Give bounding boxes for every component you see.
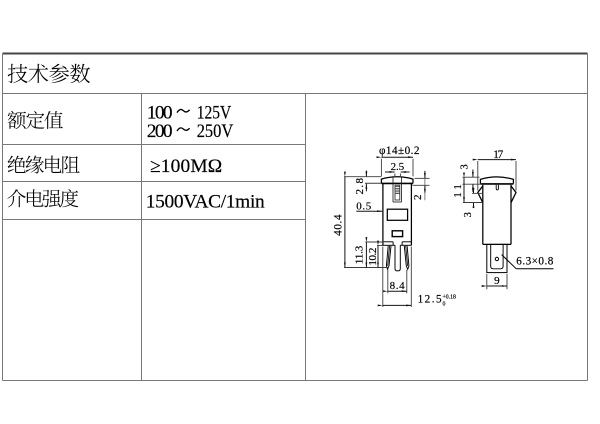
- svg-text:12.5: 12.5: [418, 293, 442, 305]
- svg-text:2.8: 2.8: [354, 178, 366, 195]
- svg-text:200: 200: [147, 121, 173, 142]
- svg-text:2.5: 2.5: [391, 161, 405, 173]
- svg-text:1500VAC/1min: 1500VAC/1min: [146, 191, 265, 212]
- svg-text:250V: 250V: [197, 120, 234, 142]
- svg-text:40.4: 40.4: [333, 214, 345, 236]
- svg-text:φ14±0.2: φ14±0.2: [379, 145, 420, 157]
- svg-text:3: 3: [459, 164, 470, 169]
- svg-text:2: 2: [412, 195, 424, 201]
- svg-text:3: 3: [463, 212, 474, 217]
- svg-text:6.3×0.8: 6.3×0.8: [516, 256, 553, 268]
- svg-text:8.4: 8.4: [390, 280, 406, 292]
- svg-text:0: 0: [443, 301, 446, 307]
- svg-text:+0.18: +0.18: [443, 294, 457, 300]
- svg-text:11.3: 11.3: [354, 245, 366, 264]
- svg-text:≥100MΩ: ≥100MΩ: [150, 156, 222, 177]
- svg-text:9: 9: [494, 275, 500, 287]
- svg-text:10.2: 10.2: [367, 248, 379, 266]
